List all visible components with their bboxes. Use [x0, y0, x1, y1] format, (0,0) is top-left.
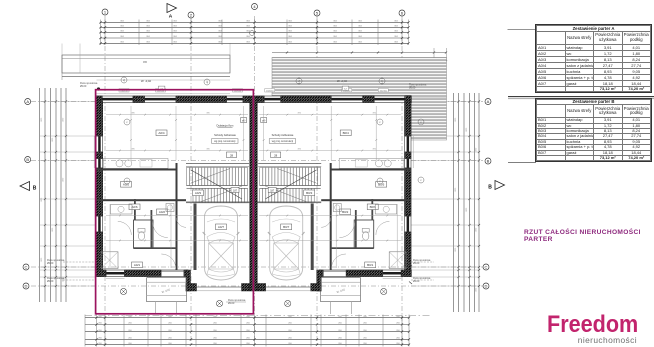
svg-text:A0/3: A0/3 [195, 191, 202, 195]
interior dimension chains [106, 114, 248, 116]
svg-text:A: A [169, 14, 173, 20]
entrance steps unit A [147, 278, 187, 302]
svg-text:D: D [25, 283, 28, 288]
svg-text:1250: 1250 [476, 147, 478, 152]
right dimension column [453, 93, 455, 312]
svg-text:B0/2: B0/2 [342, 210, 349, 214]
building outer walls [96, 96, 411, 103]
svg-text:1250: 1250 [476, 227, 478, 232]
svg-text:1250: 1250 [41, 257, 43, 262]
svg-text:1250: 1250 [52, 137, 54, 142]
svg-text:4j: 4j [206, 81, 208, 84]
svg-text:c: c [126, 121, 128, 124]
bathroom fixtures unit A [101, 252, 118, 269]
downspout symbols [120, 288, 126, 294]
stair label boxes [227, 152, 237, 158]
section marker B right [495, 181, 505, 190]
grid bubbles right [485, 99, 491, 105]
grid axis lines [104, 16, 106, 346]
svg-text:c: c [379, 121, 381, 124]
svg-text:1250: 1250 [63, 177, 65, 182]
terrace witness verticals [61, 44, 63, 56]
svg-text:Schody żelbetowe: Schody żelbetowe [214, 133, 236, 137]
svg-text:1250: 1250 [455, 187, 457, 192]
svg-text:995: 995 [143, 61, 148, 64]
area table parter A [536, 25, 651, 92]
svg-text:c: c [420, 179, 422, 182]
top dimension lines [101, 21, 409, 23]
svg-text:Ø100: Ø100 [47, 261, 54, 265]
svg-text:28: 28 [230, 153, 234, 157]
svg-text:D: D [485, 283, 488, 288]
svg-text:1250: 1250 [476, 287, 478, 292]
svg-text:wg proj. konstrukcji: wg proj. konstrukcji [214, 140, 236, 143]
svg-text:B0/1: B0/1 [367, 263, 374, 267]
bottom dimension lines [85, 317, 409, 319]
svg-text:A0/4: A0/4 [158, 131, 165, 135]
roof hatch over right unit [272, 58, 447, 98]
stairs unit A [187, 168, 248, 186]
svg-text:B: B [487, 158, 490, 163]
svg-text:150/150: 150/150 [343, 90, 351, 92]
svg-text:W. -0,02: W. -0,02 [141, 79, 152, 83]
area table parter B [536, 99, 651, 161]
section marker A top [167, 4, 177, 13]
svg-text:B: B [33, 186, 37, 192]
svg-text:W. -0,02: W. -0,02 [162, 289, 171, 294]
svg-text:A0/6: A0/6 [131, 205, 138, 209]
svg-text:B0/7: B0/7 [283, 225, 290, 229]
svg-text:A0/1: A0/1 [134, 263, 141, 267]
svg-text:1250: 1250 [466, 127, 468, 132]
svg-text:A0/5: A0/5 [123, 183, 130, 187]
svg-text:Ø100: Ø100 [80, 84, 87, 88]
grid bubbles top [102, 9, 108, 15]
terrace outline top-left [62, 55, 230, 73]
svg-text:B0/3: B0/3 [306, 191, 313, 195]
svg-text:1250: 1250 [41, 117, 43, 122]
svg-text:Dylatacja 8cm: Dylatacja 8cm [217, 124, 235, 128]
svg-text:1250: 1250 [41, 197, 43, 202]
svg-text:1250: 1250 [455, 117, 457, 122]
svg-text:396: 396 [206, 113, 210, 115]
svg-text:396: 396 [131, 149, 135, 151]
grid bubbles left [25, 99, 31, 105]
svg-text:C: C [485, 264, 488, 269]
svg-text:A: A [26, 99, 29, 104]
svg-text:A0/2: A0/2 [159, 210, 166, 214]
svg-text:150/150: 150/150 [266, 90, 274, 92]
windows in walls [102, 98, 134, 101]
property boundary magenta rectangle [96, 90, 254, 314]
car in garage A [205, 206, 238, 280]
svg-text:Ø100: Ø100 [47, 279, 54, 283]
svg-text:B0/5: B0/5 [378, 183, 385, 187]
left dimension column [39, 88, 41, 302]
panel separator lines [508, 96, 654, 98]
svg-text:150/150: 150/150 [157, 90, 165, 92]
svg-text:1250: 1250 [63, 117, 65, 122]
svg-text:2j: 2j [123, 79, 125, 82]
svg-text:396: 396 [206, 149, 210, 151]
Freedom logo [537, 314, 637, 344]
svg-text:187: 187 [233, 190, 238, 193]
svg-text:396: 396 [298, 149, 302, 151]
site boundary dash line [85, 315, 430, 317]
svg-text:28: 28 [274, 153, 278, 157]
drawing title [524, 229, 654, 243]
svg-text:Schody żelbetowe: Schody żelbetowe [272, 133, 294, 137]
kitchen counter unit A [103, 159, 168, 169]
svg-text:396: 396 [298, 113, 302, 115]
svg-text:396: 396 [131, 113, 135, 115]
svg-text:B: B [26, 157, 29, 162]
svg-text:150/150: 150/150 [120, 90, 128, 92]
svg-text:B: B [488, 185, 492, 191]
svg-text:150/150: 150/150 [234, 90, 242, 92]
section marker B left [20, 182, 30, 191]
svg-text:1250: 1250 [466, 207, 468, 212]
facade sill lines [97, 93, 231, 95]
svg-text:W. -0,02: W. -0,02 [337, 79, 348, 83]
svg-text:wg proj. konstrukcji: wg proj. konstrukcji [272, 140, 294, 143]
room label boxes [156, 130, 167, 136]
svg-text:A0/7: A0/7 [218, 225, 225, 229]
svg-text:W. -0,02: W. -0,02 [337, 289, 346, 294]
svg-text:1250: 1250 [52, 227, 54, 232]
svg-text:A: A [487, 99, 490, 104]
svg-text:187: 187 [270, 190, 275, 193]
svg-text:1250: 1250 [455, 247, 457, 252]
svg-text:C: C [25, 264, 28, 269]
svg-text:150/150: 150/150 [380, 90, 388, 92]
svg-text:B0/4: B0/4 [343, 131, 350, 135]
interior walls unit A [97, 169, 177, 171]
aux circle near bubble 4 [250, 31, 255, 36]
svg-text:Ø100: Ø100 [409, 86, 416, 90]
